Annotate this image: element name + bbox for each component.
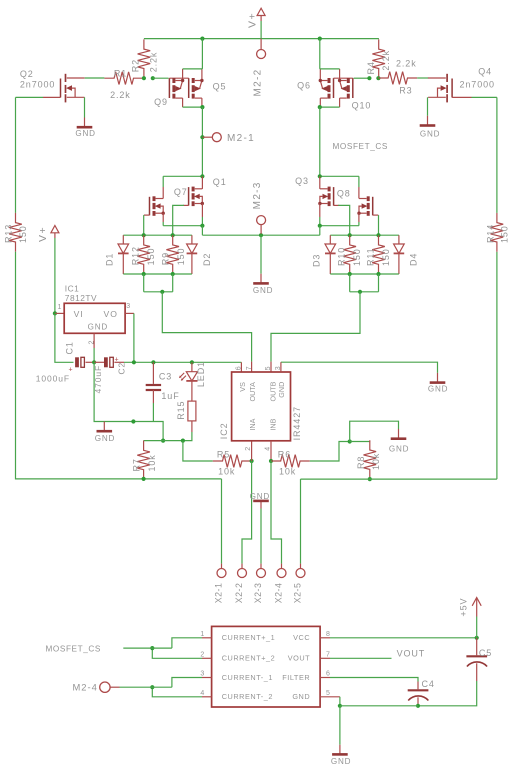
junction DR top left a: [142, 233, 146, 237]
svg-text:GND: GND: [277, 382, 286, 398]
svg-text:Q1: Q1: [213, 177, 227, 187]
wire C3 top lead: [152, 362, 154, 384]
svg-text:150: 150: [352, 248, 362, 266]
wire IC2 pin4 stub: [270, 441, 272, 461]
svg-text:CURRENT+_2: CURRENT+_2: [222, 654, 276, 663]
svg-text:CURRENT-_1: CURRENT-_1: [222, 673, 273, 682]
wire OUTB route: [271, 292, 360, 362]
wire right DR bottom rail: [330, 273, 399, 275]
svg-text:10k: 10k: [218, 466, 235, 476]
pin stub left 3: [202, 677, 212, 679]
svg-text:1uF: 1uF: [161, 391, 179, 401]
junction top rail right: [318, 37, 322, 41]
connector pad X2-2 stub: [241, 564, 243, 569]
svg-text:7: 7: [326, 652, 330, 659]
svg-text:150: 150: [381, 248, 391, 266]
wire C5 bottom lead: [476, 663, 478, 681]
svg-text:D3: D3: [311, 254, 321, 267]
svg-text:D1: D1: [105, 253, 115, 266]
connector pad X2-3: [257, 569, 266, 578]
junction OUTA node: [160, 290, 164, 294]
resistor R1: [104, 72, 143, 85]
wire Q8 source pin: [358, 213, 360, 222]
wire Q4 gate: [472, 96, 497, 98]
junction OUTB node: [358, 290, 362, 294]
junction right gnd B: [348, 439, 352, 443]
wire right DR drop b: [378, 274, 380, 292]
wire X2-2 route: [242, 461, 252, 564]
wire C2 right: [114, 361, 124, 363]
wire C4 bottom lead: [417, 697, 419, 706]
junction gate node right: [367, 76, 371, 80]
connector pad M2-1 stub: [202, 136, 212, 138]
svg-text:GND: GND: [428, 384, 448, 393]
junction INA node: [250, 459, 254, 463]
wire mid gnd drop: [260, 235, 262, 274]
wire Q7 drain drop: [162, 176, 164, 187]
wire IC2 pin3 stub: [280, 362, 282, 372]
wire mid rail left: [163, 225, 202, 227]
svg-text:2: 2: [245, 447, 252, 451]
svg-text:R4: R4: [366, 61, 376, 74]
svg-text:C3: C3: [159, 371, 172, 381]
svg-text:R5: R5: [217, 449, 230, 459]
wire gnd rail A: [94, 362, 163, 440]
diode D1: [118, 235, 129, 274]
svg-text:R10: R10: [337, 247, 347, 266]
wire low drain join right: [320, 175, 359, 177]
wire left DR jog: [144, 291, 173, 293]
junction LED rail: [190, 360, 194, 364]
svg-text:R7: R7: [131, 458, 141, 471]
resistor R2: [138, 39, 151, 78]
wire Q4 gate pin: [452, 96, 471, 98]
svg-text:MOSFET_CS: MOSFET_CS: [46, 644, 101, 653]
pin stub right 5: [320, 696, 340, 698]
wire gate interconnect Q9 Q5: [169, 77, 188, 79]
svg-text:R15: R15: [176, 401, 186, 420]
wire Q7 source pin: [162, 213, 164, 222]
diode D2: [187, 235, 198, 274]
junction MOSFET_CS: [150, 646, 154, 650]
svg-text:5: 5: [265, 366, 272, 370]
junction VI node: [53, 311, 57, 315]
wire C5 top lead: [476, 638, 478, 656]
svg-text:C4: C4: [422, 679, 435, 689]
wire left DR bottom rail: [123, 273, 192, 275]
wire drain drop left: [201, 39, 203, 69]
svg-text:+5V: +5V: [459, 598, 469, 617]
wire X2-3 riser: [260, 509, 262, 564]
connector pad M2-1: [212, 133, 221, 142]
svg-text:D2: D2: [202, 253, 212, 266]
svg-text:R12: R12: [131, 246, 141, 265]
junction +5V node: [475, 636, 479, 640]
power symbol V+ left: [51, 226, 59, 239]
wire pin5 down: [339, 697, 341, 706]
svg-text:GND: GND: [292, 692, 310, 701]
svg-text:7812TV: 7812TV: [65, 293, 97, 303]
resistor R14: [491, 213, 504, 252]
junction sub rail gnd: [259, 233, 263, 237]
svg-text:GND: GND: [95, 434, 115, 443]
wire gnd rail B: [144, 440, 183, 442]
ground IC1 area: [97, 422, 113, 432]
wire Q3 source pin: [319, 204, 321, 218]
svg-text:Q7: Q7: [174, 187, 188, 197]
wire R8 top lead: [369, 441, 371, 443]
resistor R15: [188, 401, 196, 421]
wire bottom rail: [340, 705, 418, 707]
svg-text:CURRENT+_1: CURRENT+_1: [222, 633, 276, 642]
wire Q2 gate pin: [43, 96, 61, 98]
svg-text:VS: VS: [238, 382, 247, 392]
wire sub drop left: [201, 226, 203, 236]
wire IC2 pin7 stub: [251, 362, 253, 372]
connector pad X2-3 stub: [260, 564, 262, 569]
svg-text:MOSFET_CS: MOSFET_CS: [333, 142, 388, 151]
svg-text:R11: R11: [365, 247, 375, 266]
svg-text:2.2k: 2.2k: [381, 50, 391, 71]
svg-text:2.2k: 2.2k: [149, 52, 159, 73]
transistor Q5: [189, 69, 204, 107]
wire Q1 source drop: [201, 217, 203, 226]
svg-text:Q10: Q10: [352, 101, 372, 111]
svg-text:8: 8: [326, 631, 330, 638]
wire left DR drop a: [143, 274, 145, 292]
resistor R3: [378, 72, 417, 85]
svg-text:M2-2: M2-2: [252, 69, 263, 97]
connector pad M2-4: [100, 682, 110, 692]
transistor Q2: [61, 74, 85, 103]
transistor Q6: [319, 69, 334, 107]
junction VO rail: [132, 360, 136, 364]
svg-text:1000uF: 1000uF: [36, 373, 70, 383]
junction DR bot right a: [348, 272, 352, 276]
svg-text:GND: GND: [420, 129, 440, 138]
svg-text:1: 1: [58, 304, 62, 311]
resistor R11: [372, 235, 385, 274]
wire FILTER to C4: [330, 678, 418, 682]
svg-text:VOUT: VOUT: [397, 649, 426, 659]
power symbol +5V: [472, 598, 481, 617]
svg-text:10k: 10k: [279, 466, 296, 476]
pin stub right 8: [320, 637, 330, 639]
svg-text:VI: VI: [74, 309, 84, 319]
wire X2-5 riser: [300, 479, 302, 563]
IC U IC3 current sensor box: [212, 626, 321, 707]
connector pad M2-3 stub: [260, 225, 262, 234]
resistor R7: [137, 441, 150, 480]
wire IC2 pin5 stub: [270, 362, 272, 372]
svg-text:R9: R9: [160, 252, 170, 265]
wire Q1 source pin: [201, 204, 203, 218]
IC U IC1 7812TV box: [64, 303, 125, 333]
resistor R4: [372, 39, 385, 78]
svg-text:INA: INA: [248, 418, 257, 430]
wire IC1 gnd down: [93, 348, 95, 362]
resistor R10: [343, 235, 356, 274]
svg-text:2.2k: 2.2k: [396, 59, 417, 69]
svg-text:X2-3: X2-3: [253, 583, 263, 604]
wire Q4 source down: [427, 97, 429, 116]
svg-text:Q5: Q5: [213, 81, 227, 91]
wire Q7 source drop: [162, 222, 164, 226]
wire C3 to gnd: [152, 403, 154, 422]
connector pad X2-2: [238, 569, 247, 578]
wire gnd drop bottom: [339, 706, 341, 745]
wire right DR drop a: [349, 274, 351, 292]
junction gate node left: [151, 76, 155, 80]
junction M2-4 node: [150, 685, 154, 689]
wire IC3 pin4: [152, 687, 202, 697]
wire Q1 gate: [173, 205, 184, 235]
wire left DR top rail: [123, 234, 192, 236]
connector pad X2-1: [217, 569, 226, 578]
svg-text:CURRENT-_2: CURRENT-_2: [222, 692, 273, 701]
wire VCC to +5V: [330, 637, 477, 639]
svg-text:2: 2: [200, 652, 204, 659]
wire V+ to VI: [54, 238, 56, 313]
svg-text:Q3: Q3: [295, 176, 309, 186]
wire IC2 gnd: [281, 362, 438, 373]
svg-text:Q8: Q8: [337, 189, 351, 199]
wire Q3 gate: [338, 205, 349, 235]
svg-text:R14: R14: [485, 224, 495, 243]
transistor Q8: [357, 196, 378, 216]
wire IC2 pin6 stub: [240, 362, 242, 372]
svg-text:V+: V+: [37, 226, 49, 242]
connector pad M2-2: [257, 50, 266, 59]
ground bottom: [332, 745, 348, 755]
wire IC3 pin2: [152, 648, 202, 658]
svg-text:5: 5: [326, 690, 330, 697]
wire right loop bottom: [301, 478, 497, 480]
junction C3 rail: [151, 360, 155, 364]
diode D4: [394, 235, 405, 274]
junction R3 R4: [376, 76, 380, 80]
junction DR top right a: [348, 233, 352, 237]
pin stub right 7: [320, 657, 330, 659]
wire MOSFET_CS label: [123, 647, 172, 649]
connector pad X2-5: [296, 569, 305, 578]
junction gnd A: [131, 419, 135, 423]
svg-text:R13: R13: [4, 224, 14, 243]
wire gate interconnect Q6 Q10: [334, 77, 353, 79]
svg-text:C1: C1: [64, 341, 74, 354]
svg-text:7: 7: [246, 366, 253, 370]
pin stub right 6: [320, 677, 330, 679]
capacitor C5: [466, 656, 487, 666]
svg-text:GND: GND: [75, 129, 95, 138]
wire X2-4 route: [271, 461, 282, 564]
wire mid rail right: [320, 225, 359, 227]
wire VOUT: [330, 657, 392, 659]
junction mid rail right: [318, 224, 322, 228]
svg-text:6: 6: [236, 366, 243, 370]
wire sub drop right: [319, 226, 321, 236]
connector pad M2-3: [257, 216, 266, 225]
svg-text:4: 4: [200, 690, 204, 697]
svg-text:3: 3: [200, 671, 204, 678]
svg-text:GND: GND: [389, 444, 409, 453]
svg-text:150: 150: [500, 225, 510, 243]
diode D3: [325, 235, 336, 274]
svg-text:GND: GND: [250, 492, 270, 501]
transistor Q7: [144, 196, 165, 216]
svg-text:2n7000: 2n7000: [460, 80, 495, 90]
wire C5 to bottom rail: [418, 681, 477, 706]
wire right gnd A: [350, 421, 399, 441]
wire IC1 pin1 stub: [55, 312, 64, 314]
pin stub left 2: [202, 657, 212, 659]
wire low drain join left: [163, 175, 202, 177]
junction DR top left b: [171, 233, 175, 237]
svg-text:GND: GND: [331, 757, 351, 766]
IC U IC2 IR4427 box: [232, 372, 291, 441]
junction R1 R2: [142, 76, 146, 80]
wire source join right: [320, 106, 340, 108]
svg-text:X2-2: X2-2: [234, 583, 244, 604]
wire left loop top: [15, 97, 17, 212]
wire R6 to gnd: [310, 442, 350, 462]
junction INB node: [269, 459, 273, 463]
ground Q2: [77, 118, 93, 128]
wire 12V rail: [124, 361, 241, 363]
svg-text:VO: VO: [104, 309, 118, 319]
wire drain drop right: [319, 39, 321, 69]
junction low drain left: [200, 174, 204, 178]
svg-text:M2-4: M2-4: [72, 682, 97, 693]
svg-text:150: 150: [176, 248, 186, 266]
wire Q8 gate: [378, 215, 380, 235]
junction DR bot left b: [171, 272, 175, 276]
junction M2-1: [200, 135, 204, 139]
wire drain join right: [320, 68, 340, 70]
svg-text:D4: D4: [409, 253, 419, 266]
svg-text:R2: R2: [130, 59, 140, 72]
junction pin5 gnd: [338, 704, 342, 708]
svg-text:Q4: Q4: [478, 66, 492, 76]
resistor R13: [9, 213, 22, 252]
wire left DR drop b: [172, 274, 174, 292]
wire V+ stem: [260, 21, 262, 39]
junction R7 bottom: [142, 477, 146, 481]
wire right DR top rail: [330, 234, 399, 236]
wire +5V stem: [476, 617, 478, 638]
wire Q2 gate: [16, 96, 44, 98]
svg-text:OUTA: OUTA: [248, 382, 257, 402]
junction source right: [318, 105, 322, 109]
junction DR top right b: [376, 233, 380, 237]
wire OUTA route: [162, 292, 251, 362]
wire right loop up: [496, 252, 498, 479]
svg-text:IR4427: IR4427: [292, 406, 302, 440]
wire Q1 drain pin: [201, 176, 203, 189]
capacitor C4: [408, 690, 429, 700]
svg-text:GND: GND: [88, 323, 108, 332]
svg-text:2n7000: 2n7000: [20, 80, 55, 90]
ground right low: [391, 429, 407, 439]
svg-text:VCC: VCC: [293, 633, 310, 642]
junction gnd B: [161, 439, 165, 443]
capacitor C3: [146, 385, 161, 390]
capacitor C2: [106, 357, 119, 368]
connector pad X2-1 stub: [221, 564, 223, 569]
svg-text:R8: R8: [356, 456, 366, 469]
ground X2-3 inverted: [253, 501, 269, 509]
wire right DR jog: [350, 291, 379, 293]
transistor Q1: [183, 187, 204, 207]
wire top V+ rail: [144, 38, 379, 40]
wire right phase down: [319, 107, 321, 176]
wire Q3 source drop: [319, 217, 321, 226]
wire Q8 source drop: [358, 222, 360, 226]
wire gate node to Q9: [153, 77, 169, 79]
wire VI down to C1: [55, 313, 74, 362]
wire R15 bottom lead: [191, 421, 193, 432]
junction gnd node C1: [92, 360, 96, 364]
svg-text:C5: C5: [479, 648, 492, 658]
svg-text:10k: 10k: [147, 454, 157, 471]
connector pad M2-2 stub: [260, 39, 262, 50]
wire VO down: [133, 313, 135, 362]
svg-text:INB: INB: [269, 418, 278, 430]
LED LED1: [179, 372, 198, 381]
resistor R8: [364, 440, 377, 479]
transistor Q10: [338, 69, 353, 107]
wire Q7 drain pin: [162, 187, 164, 199]
resistor R5: [213, 455, 252, 468]
junction C4 bottom: [416, 704, 420, 708]
wire C1 right: [86, 361, 94, 363]
connector pad X2-4 stub: [281, 564, 283, 569]
wire C4 top lead: [417, 682, 419, 690]
junction DR bot left a: [142, 272, 146, 276]
svg-text:FILTER: FILTER: [282, 673, 310, 682]
resistor R6: [271, 455, 310, 468]
wire IC3 pin3: [172, 678, 202, 688]
svg-text:150: 150: [18, 225, 28, 243]
wire C2 left: [94, 361, 104, 363]
junction low drain right: [318, 174, 322, 178]
svg-text:R1: R1: [114, 69, 127, 79]
wire IC2 pin2 stub: [251, 441, 253, 461]
ground mid: [253, 274, 269, 284]
wire left loop bottom: [16, 252, 222, 479]
svg-text:6: 6: [326, 671, 330, 678]
wire Q8 drain drop: [358, 176, 360, 187]
wire gate node right: [354, 77, 370, 79]
svg-text:X2-5: X2-5: [293, 583, 303, 604]
svg-text:2.2k: 2.2k: [110, 90, 131, 100]
svg-text:10k: 10k: [371, 453, 381, 470]
wire Q2 source down: [84, 97, 86, 117]
ground Q4: [420, 116, 436, 126]
junction mid rail left: [200, 224, 204, 228]
wire LED1 to R15: [191, 381, 193, 401]
wire IC1 pin2 stub: [93, 333, 95, 348]
svg-text:IC2: IC2: [219, 422, 229, 439]
wire C3 bottom lead: [152, 390, 154, 403]
wire right gnd B to R8: [350, 441, 370, 443]
svg-text:VOUT: VOUT: [288, 654, 310, 663]
wire right loop top: [496, 97, 498, 212]
wire X2-1 riser: [221, 479, 223, 564]
wire Q3 drain pin: [319, 176, 321, 189]
pin stub left 1: [202, 637, 212, 639]
svg-text:X2-1: X2-1: [214, 583, 224, 604]
